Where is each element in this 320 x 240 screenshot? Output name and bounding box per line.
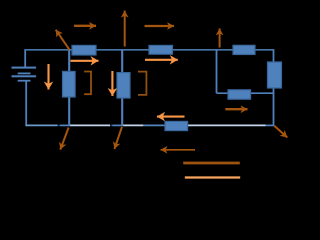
wire bottom bus pale segment right of node B — [123, 124, 144, 126]
electron flow arrow down left of R5 — [111, 71, 113, 96]
resistor R5 — [117, 73, 130, 98]
wire R7 right to right vertical — [250, 92, 274, 94]
current arrow up-left diagonal at node above R1 — [56, 30, 70, 51]
current arrow down-left diagonal below node B — [114, 127, 122, 149]
wire bottom bus medium segment at node A — [60, 124, 70, 126]
wire branch 2 upper (top bus to R5) — [121, 50, 123, 74]
current arrow down-left diagonal below node A — [60, 128, 68, 150]
wire bottom bus dark tick left of node A — [58, 124, 60, 126]
resistor R8 — [165, 121, 188, 130]
wire branch 1 upper (top bus to R4) — [68, 50, 70, 73]
resistor R6 — [268, 62, 282, 88]
resistor R4 — [63, 71, 76, 97]
battery B1 — [12, 67, 37, 82]
wire bottom bus segment battery to node A — [26, 124, 58, 126]
legend line light (electron flow) — [185, 176, 240, 178]
current arrow right above R1 — [74, 25, 96, 27]
wire bottom bus pale segment R8 to right corner — [187, 124, 266, 126]
wire battery positive vertical — [24, 50, 26, 67]
wire battery negative vertical — [25, 81, 27, 126]
wire bottom bus medium segment near right corner — [266, 124, 274, 126]
wire bottom bus medium segment at node B — [112, 124, 123, 126]
wire top horizontal bus — [24, 49, 274, 51]
wire branch 2 lower (R5 to bottom bus) — [121, 97, 123, 126]
wire bottom bus medium segment into R8 — [143, 124, 166, 126]
wire branch 1 lower (R4 to bottom bus) — [68, 96, 70, 126]
wire right vertical upper (top bus to R6) — [273, 50, 275, 63]
resistor R3 — [233, 45, 255, 54]
current arrow up at right-loop left vertical — [219, 28, 221, 47]
legend line dark (conventional current) — [183, 162, 240, 165]
electron flow arrow left above R8 — [157, 116, 185, 118]
current arrow right below R7 — [225, 108, 247, 110]
resistor R1 — [72, 45, 96, 55]
electron flow arrow right below R2 — [145, 59, 178, 61]
wire bottom bus dark tick left of node B — [110, 124, 112, 126]
wire right-loop left vertical — [216, 50, 218, 93]
wire right vertical lower (R6 to bottom bus) — [273, 88, 275, 127]
resistor R7 — [228, 90, 251, 99]
current arrow right above R2 — [145, 25, 175, 27]
mesh bracket right of R4 — [84, 72, 91, 95]
current arrow left below bottom bus — [161, 149, 196, 151]
electron flow arrow down beside battery — [47, 64, 49, 90]
wire bottom bus pale segment node A to node B — [70, 124, 110, 126]
current arrow long vertical up at branch 2 — [124, 11, 126, 47]
electron flow arrow right below R1 — [71, 60, 99, 62]
current arrow down-right diagonal at bottom right corner — [274, 126, 287, 138]
resistor R2 — [149, 45, 173, 54]
wire right-loop left horizontal into R7 — [217, 92, 230, 94]
mesh bracket right of R5 — [138, 72, 146, 95]
